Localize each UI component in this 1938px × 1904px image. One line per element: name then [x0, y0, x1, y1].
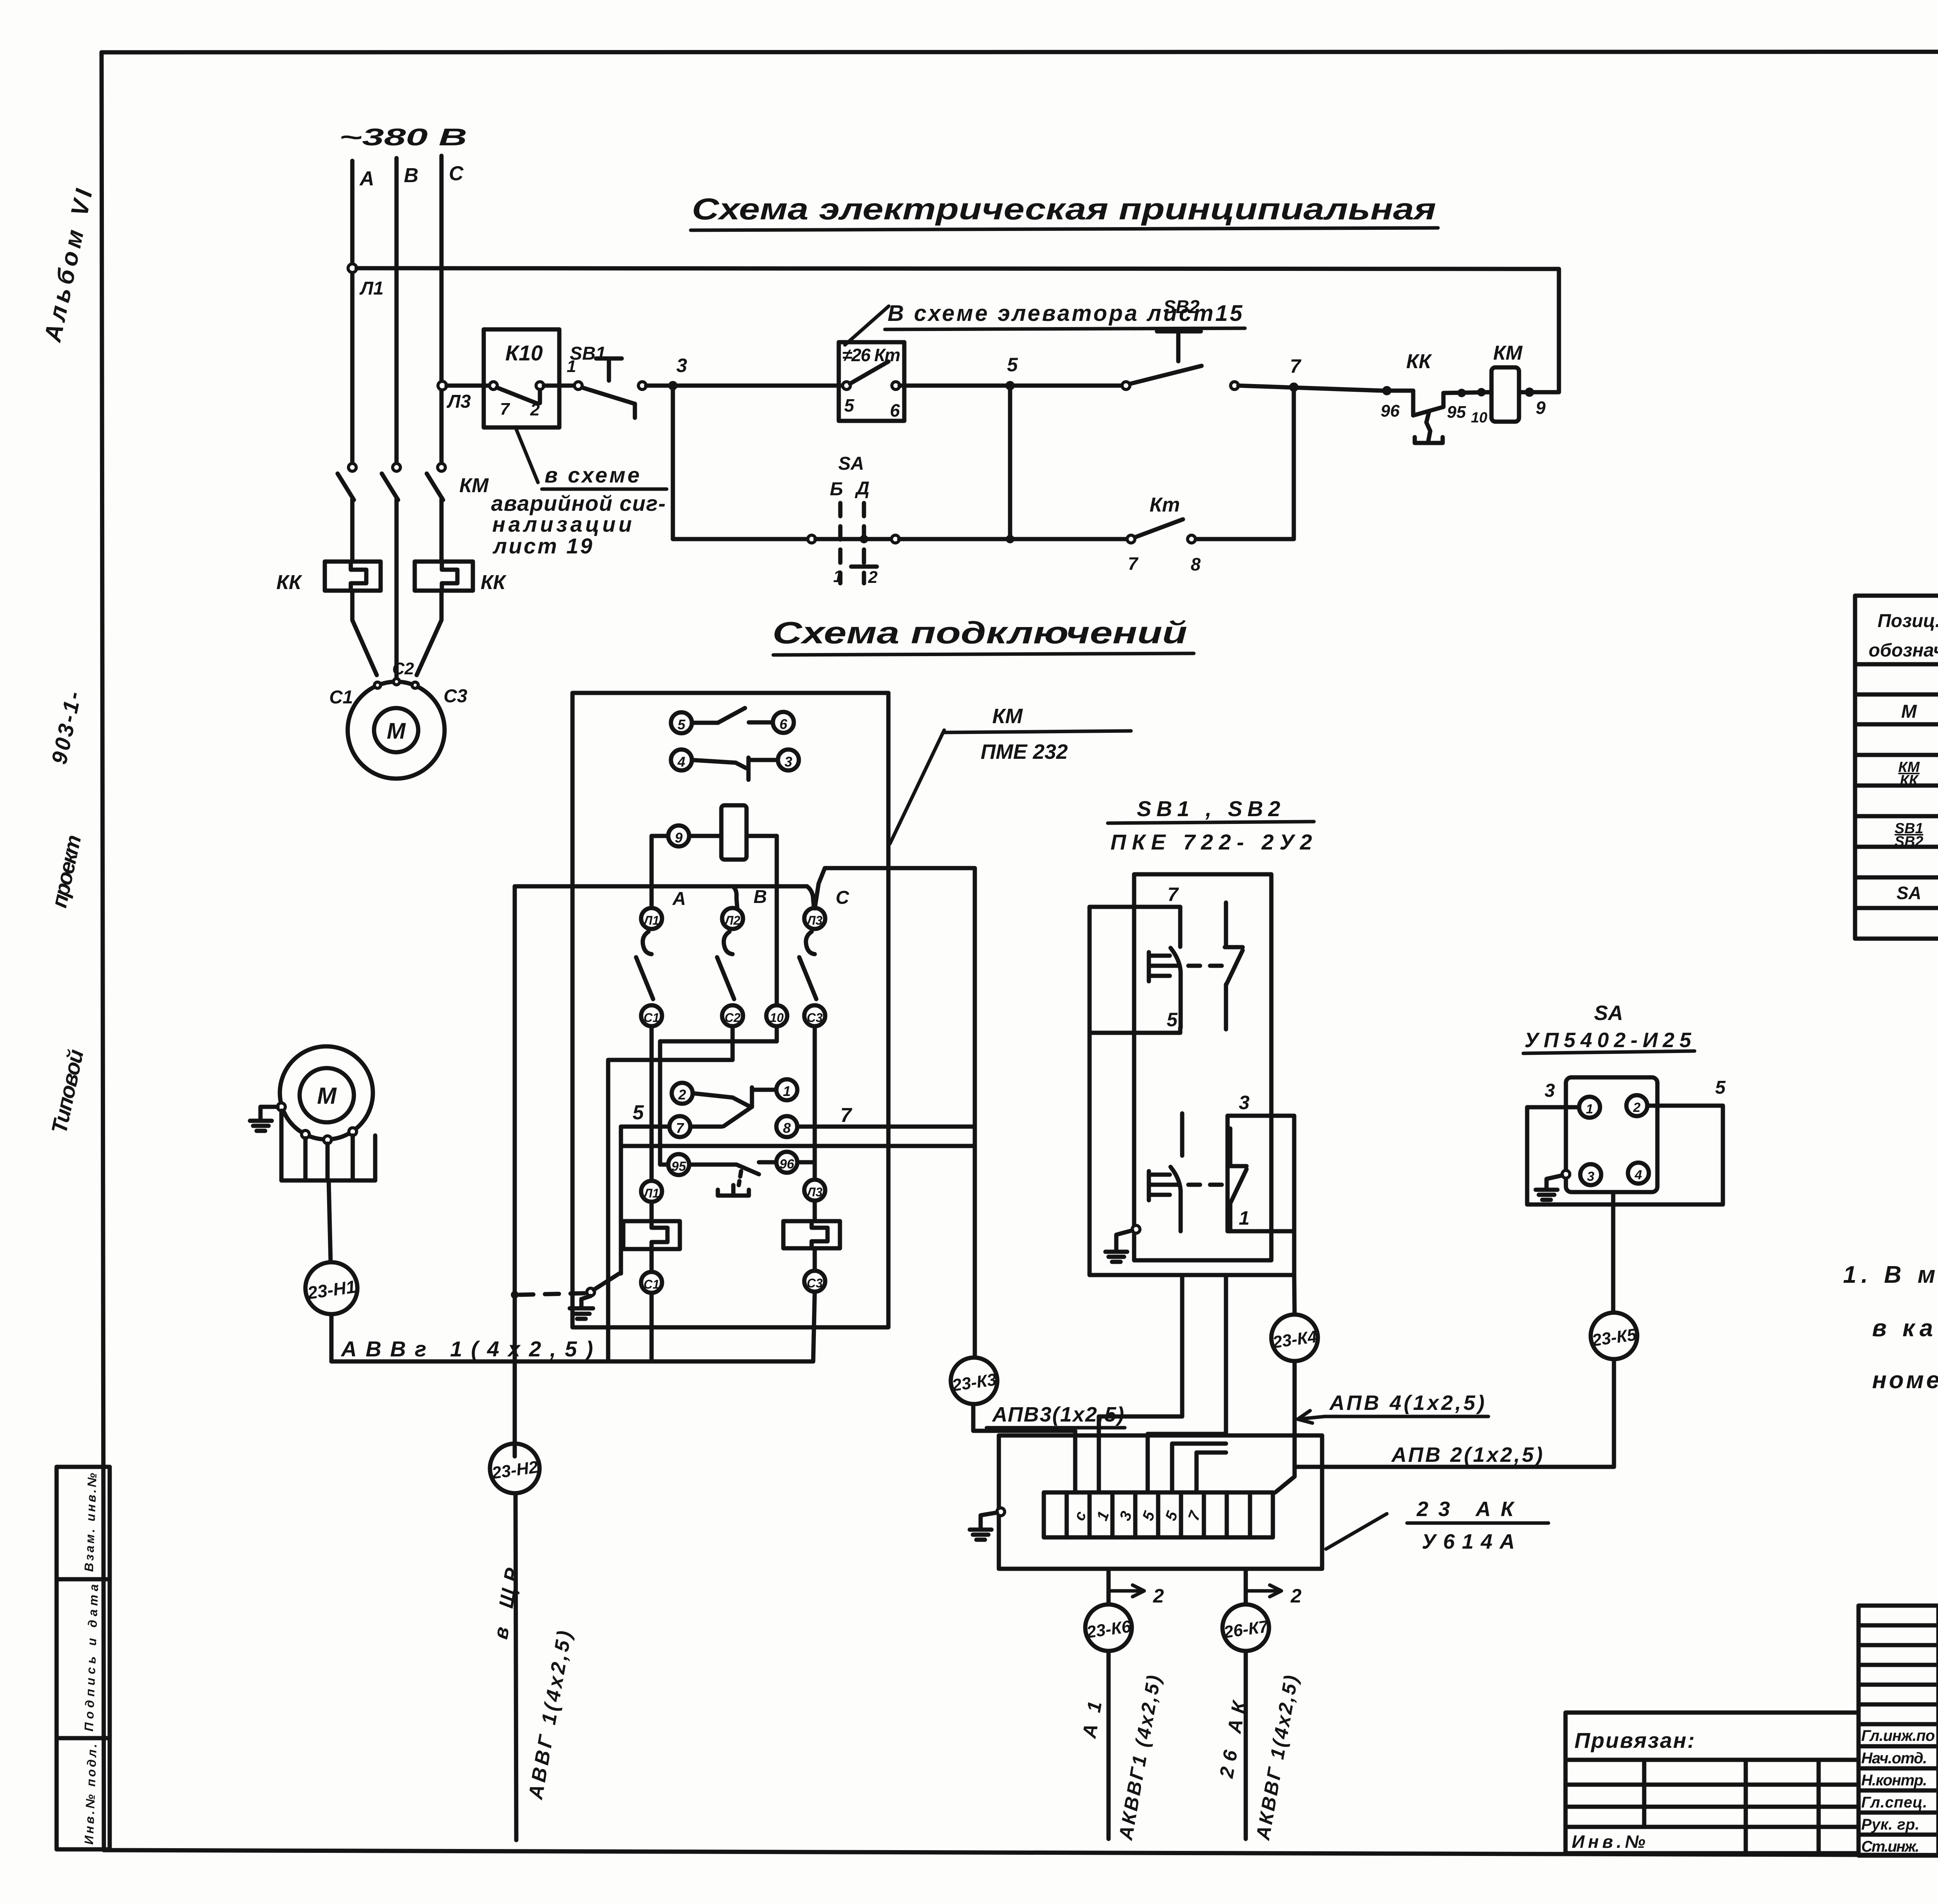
svg-text:~380 В: ~380 В	[339, 124, 467, 151]
svg-text:2: 2	[1153, 1585, 1164, 1607]
svg-text:95: 95	[1447, 403, 1466, 422]
svg-text:Л1: Л1	[359, 278, 384, 299]
svg-text:С: С	[836, 887, 850, 908]
leader to elevator note	[845, 306, 889, 345]
svg-text:7: 7	[676, 1120, 685, 1136]
thermal terminal L3	[804, 1180, 825, 1201]
ground symbol (motor M2)	[250, 1121, 272, 1131]
KM main contact A	[643, 932, 652, 954]
ground symbol (KM box)	[570, 1296, 593, 1319]
motor M2 ground terminal	[278, 1103, 285, 1111]
thermal terminal C3 out	[804, 1271, 825, 1292]
svg-text:7: 7	[1128, 553, 1139, 574]
svg-text:Д: Д	[855, 478, 870, 499]
arrow feeder 2 left	[1109, 1589, 1143, 1593]
svg-text:2: 2	[868, 568, 878, 587]
svg-text:7: 7	[1290, 355, 1302, 377]
pushbutton station box	[1134, 874, 1271, 1260]
svg-text:3: 3	[1239, 1092, 1250, 1113]
wire to ShchR panel	[516, 1493, 516, 1840]
wire L3 to K10	[447, 384, 490, 388]
wire 23-K3 to terminal block	[973, 1404, 1075, 1492]
svg-text:SA: SA	[1594, 1001, 1623, 1025]
privjazan block	[1566, 1713, 1859, 1853]
ground symbol (23AK)	[970, 1530, 991, 1540]
svg-text:М: М	[317, 1083, 337, 1109]
starter KM box PME232	[572, 693, 888, 1327]
svg-text:Позиц.: Позиц.	[1878, 611, 1938, 631]
svg-text:1: 1	[1586, 1102, 1593, 1117]
ground symbol (SA)	[1536, 1190, 1557, 1200]
thermal contact 95-96	[668, 1152, 797, 1196]
svg-text:С2: С2	[725, 1011, 741, 1025]
svg-text:3: 3	[785, 754, 792, 770]
wire 10 drop from coil	[775, 836, 779, 1005]
terminal L2	[722, 908, 743, 929]
svg-text:А: А	[672, 889, 686, 909]
terminal L1	[641, 908, 662, 929]
wire node3 down to hold branch	[671, 386, 675, 539]
svg-text:У614А: У614А	[1422, 1530, 1515, 1553]
svg-text:ПКЕ 722- 2У2: ПКЕ 722- 2У2	[1110, 830, 1312, 854]
cable AVVG1 run	[331, 1314, 813, 1361]
svg-text:Нач.отд.: Нач.отд.	[1861, 1750, 1927, 1767]
KM aux contact 4-3	[671, 750, 799, 780]
svg-text:2: 2	[530, 400, 540, 419]
svg-text:3: 3	[1587, 1169, 1595, 1184]
terminal 10	[766, 1005, 787, 1026]
svg-text:КМ: КМ	[459, 474, 489, 497]
wire C1 down	[650, 1026, 654, 1181]
note: v sheme avarijnoj signalizacii list 19	[491, 463, 667, 558]
arrow feeder 2 right	[1246, 1589, 1281, 1593]
svg-text:6: 6	[779, 716, 788, 732]
svg-text:АПВ 2(1х2,5): АПВ 2(1х2,5)	[1391, 1443, 1543, 1466]
svg-text:SB1: SB1	[570, 343, 606, 364]
pushbutton SB2 (NO)	[1122, 297, 1238, 389]
svg-text:7: 7	[500, 400, 510, 419]
wire SB2 to node7	[1238, 386, 1382, 391]
terminal C1	[641, 1005, 662, 1026]
element list table	[1855, 596, 1938, 939]
wire 23-K4 down to terminal block	[1275, 1361, 1295, 1492]
svg-text:КК: КК	[276, 571, 302, 594]
SA terminal 1	[1579, 1097, 1600, 1118]
wire node3 to node5	[900, 384, 1122, 388]
svg-text:А: А	[359, 167, 374, 190]
wire hold branch	[673, 537, 808, 541]
leader to emergency note	[516, 427, 538, 482]
cable marker 23-K6	[1085, 1604, 1132, 1651]
svg-text:КК: КК	[1406, 350, 1432, 373]
contactor KM main contacts	[338, 464, 489, 500]
PE terminal pushbutton station	[1132, 1225, 1140, 1233]
thermal contact KK	[1381, 350, 1491, 443]
margin stamp table	[57, 1467, 110, 1849]
wire riser to 23-N2	[490, 1444, 540, 1493]
svg-text:Инв.№: Инв.№	[1572, 1832, 1645, 1852]
svg-text:М: М	[1901, 701, 1917, 722]
wires SB to terminal block	[1099, 1275, 1182, 1492]
svg-text:6: 6	[890, 400, 900, 420]
svg-text:Схема электрическая принципи: Схема электрическая принципиальная	[692, 192, 1436, 226]
wire 10 reroute to 95	[660, 1026, 777, 1165]
svg-text:5: 5	[1007, 354, 1018, 376]
svg-text:96: 96	[779, 1157, 795, 1172]
svg-text:2: 2	[1290, 1585, 1302, 1607]
wire L3 to SA circuit riser	[815, 868, 975, 1358]
svg-text:Л1: Л1	[643, 913, 659, 927]
svg-text:Рук. гр.: Рук. гр.	[1861, 1816, 1919, 1833]
wire C1 to cable	[650, 1293, 654, 1361]
svg-text:Л2: Л2	[724, 913, 740, 927]
PE terminal 23AK	[997, 1508, 1005, 1516]
svg-text:С: С	[449, 162, 464, 185]
svg-text:7: 7	[1167, 884, 1179, 905]
SA terminal 2	[1626, 1095, 1647, 1116]
ground symbol (SB station)	[1105, 1252, 1127, 1262]
wire 7 out	[797, 1125, 972, 1129]
phase A wire	[350, 161, 355, 464]
svg-text:Л3: Л3	[447, 391, 471, 412]
svg-text:SA: SA	[1897, 883, 1921, 903]
wire 96 to C3 line	[797, 1160, 815, 1165]
svg-text:SA: SA	[838, 453, 864, 474]
cable marker 23-K4	[1271, 1315, 1318, 1361]
svg-text:1: 1	[1239, 1207, 1250, 1229]
svg-text:С1: С1	[644, 1011, 660, 1025]
svg-text:8: 8	[783, 1120, 791, 1136]
wire 9 to L1 terminal	[652, 836, 668, 908]
node L3	[438, 381, 447, 390]
svg-text:9: 9	[675, 830, 683, 846]
svg-text:В: В	[753, 887, 767, 907]
terminal strip U614A	[1044, 1492, 1273, 1537]
svg-text:5: 5	[633, 1101, 644, 1124]
coil KM (connection)	[668, 805, 777, 860]
relay contact K10	[484, 329, 559, 427]
wire branch up to node7	[1292, 387, 1296, 539]
svg-text:SB2: SB2	[1895, 834, 1923, 850]
svg-text:Н.контр.: Н.контр.	[1861, 1772, 1927, 1789]
wire C3 to cable	[813, 1292, 815, 1361]
leader 23AK U614A	[1326, 1514, 1387, 1549]
cable marker 26-K7	[1222, 1604, 1269, 1651]
svg-text:в кабельном журнале впереди: в кабельном журнале впереди проставляетс…	[1872, 1315, 1938, 1342]
node L1	[348, 264, 357, 272]
svg-text:С3: С3	[443, 686, 467, 706]
contact KM hold	[1127, 494, 1201, 574]
svg-text:С3: С3	[807, 1011, 823, 1025]
wire K10 to SB1	[544, 384, 574, 388]
svg-text:С1: С1	[329, 687, 353, 708]
wire to 26-K7	[1244, 1569, 1248, 1604]
wire PE riser	[513, 886, 517, 1456]
wires KM to KK heaters	[350, 499, 355, 562]
wire top bus to KM coil	[357, 268, 1559, 392]
svg-text:1: 1	[783, 1083, 791, 1099]
wire PE dashed link	[519, 1293, 585, 1295]
aux contact group 2-1-7-8	[633, 1079, 852, 1137]
svg-text:В: В	[404, 164, 419, 187]
wire 26-K7 down	[1244, 1651, 1248, 1839]
svg-text:5: 5	[678, 717, 686, 732]
svg-text:10: 10	[1471, 410, 1487, 426]
wire to 23-K4	[1294, 1275, 1295, 1315]
svg-text:Ст.инж.: Ст.инж.	[1861, 1838, 1919, 1855]
svg-text:С2: С2	[392, 659, 414, 678]
wire 5 out	[621, 1127, 972, 1146]
svg-text:УП5402-И25: УП5402-И25	[1524, 1029, 1691, 1052]
svg-text:Гл.инж.по: Гл.инж.по	[1861, 1727, 1935, 1744]
svg-text:96: 96	[1381, 401, 1400, 420]
terminal C3	[804, 1005, 825, 1026]
cable marker 23-N1	[305, 1262, 357, 1314]
motor M1	[329, 659, 467, 779]
wire 3 loop around SA	[1527, 1106, 1723, 1204]
node junction 5 down	[1008, 386, 1012, 539]
svg-text:Схема подключений: Схема подключений	[772, 615, 1187, 650]
wire 5 link	[1090, 1028, 1180, 1033]
switch SA section B-D (dashed)	[830, 453, 878, 587]
svg-text:3: 3	[676, 355, 687, 376]
KM aux contact 5-6	[671, 708, 794, 733]
wire C2 reroute down	[608, 1026, 733, 1361]
thermal heater right (connection)	[783, 1201, 840, 1271]
svg-text:10: 10	[770, 1011, 784, 1025]
KM main contact C	[806, 932, 815, 954]
thermal terminal C1 out	[641, 1272, 662, 1293]
svg-text:2: 2	[678, 1087, 686, 1103]
motor M2 terminals	[302, 1130, 309, 1138]
svg-text:7: 7	[840, 1104, 852, 1127]
wires heaters to motor	[352, 591, 377, 675]
wire SB1 to node3	[646, 384, 843, 388]
wire supply bus inside box	[515, 884, 807, 889]
PE terminal SA	[1562, 1170, 1570, 1178]
svg-text:4: 4	[677, 754, 685, 770]
wire 7 loop	[1090, 907, 1294, 1275]
svg-text:Привязан:: Привязан:	[1574, 1728, 1695, 1752]
svg-text:SB1 , SB2: SB1 , SB2	[1137, 796, 1280, 821]
svg-text:КК: КК	[481, 571, 507, 594]
svg-text:К10: К10	[505, 341, 543, 365]
svg-text:С3: С3	[807, 1276, 823, 1290]
title block frame	[1859, 1606, 1938, 1856]
thermal terminal L1	[641, 1181, 662, 1202]
cable marker 23-K5	[1591, 1313, 1637, 1359]
svg-text:8: 8	[1191, 554, 1201, 574]
motor M2	[280, 1046, 373, 1139]
svg-text:Л1: Л1	[643, 1186, 659, 1200]
svg-text:9: 9	[1536, 398, 1546, 418]
phase B wire	[395, 158, 399, 464]
svg-text:КМ: КМ	[992, 705, 1023, 728]
KM main contact B	[724, 932, 733, 954]
node 3	[668, 381, 678, 390]
svg-text:обознач.: обознач.	[1869, 640, 1938, 661]
svg-text:ПМЕ 232: ПМЕ 232	[981, 740, 1068, 763]
svg-text:≠26 Кm: ≠26 Кm	[842, 345, 900, 365]
svg-text:5: 5	[1167, 1009, 1178, 1030]
contact KM aux (+26 KM)	[839, 342, 904, 421]
svg-text:3: 3	[1545, 1080, 1555, 1101]
node 7	[1289, 383, 1298, 392]
motor M2 terminal bracket wires	[281, 1111, 375, 1180]
wire motor to 23-N1	[329, 1180, 331, 1262]
svg-text:95: 95	[671, 1159, 686, 1174]
svg-text:КМ: КМ	[1493, 342, 1523, 364]
svg-text:4: 4	[1635, 1168, 1642, 1182]
svg-text:М: М	[387, 719, 406, 744]
wire 23-K6 down	[1107, 1651, 1111, 1839]
terminal block 23AK box	[999, 1435, 1322, 1569]
thermal heater KK phase C	[415, 562, 507, 594]
svg-text:SB2: SB2	[1163, 297, 1200, 317]
svg-text:нализации: нализации	[492, 512, 632, 536]
svg-text:1: 1	[833, 567, 843, 586]
SA terminal 4	[1628, 1163, 1649, 1184]
wire SA to 23-K5	[1611, 1192, 1616, 1313]
svg-text:Л3: Л3	[806, 1185, 822, 1199]
svg-text:Гл.спец.: Гл.спец.	[1861, 1794, 1927, 1811]
svg-text:Б: Б	[830, 479, 843, 500]
thermal heater KK phase A	[276, 562, 381, 594]
wire C3 down	[813, 1026, 817, 1180]
svg-text:2: 2	[1633, 1100, 1641, 1115]
cable marker 23-K3	[951, 1358, 997, 1404]
wire APV2 run	[1295, 1359, 1614, 1467]
button SB1 contacts	[1149, 903, 1243, 1029]
svg-text:Кm: Кm	[1150, 494, 1180, 516]
wire to 23-K6	[1107, 1569, 1111, 1604]
coil KM	[1486, 342, 1546, 422]
node 5	[1005, 381, 1015, 390]
svg-text:5: 5	[1715, 1077, 1726, 1098]
phase C wire	[440, 156, 444, 464]
switch SA unit box	[1566, 1077, 1657, 1192]
svg-text:Л3: Л3	[806, 913, 822, 927]
svg-text:КК: КК	[1900, 772, 1919, 789]
thermal heater left (connection)	[623, 1202, 680, 1272]
terminal C2	[722, 1005, 743, 1026]
terminal L3	[804, 908, 825, 929]
pushbutton SB1 (NC)	[570, 343, 646, 418]
ground contact in box	[587, 1146, 621, 1296]
button SB2 contacts	[1149, 1092, 1250, 1231]
svg-text:С1: С1	[644, 1277, 660, 1291]
leader KM PME232	[890, 730, 944, 844]
svg-text:5: 5	[844, 395, 855, 415]
SA terminal 3	[1580, 1164, 1601, 1185]
